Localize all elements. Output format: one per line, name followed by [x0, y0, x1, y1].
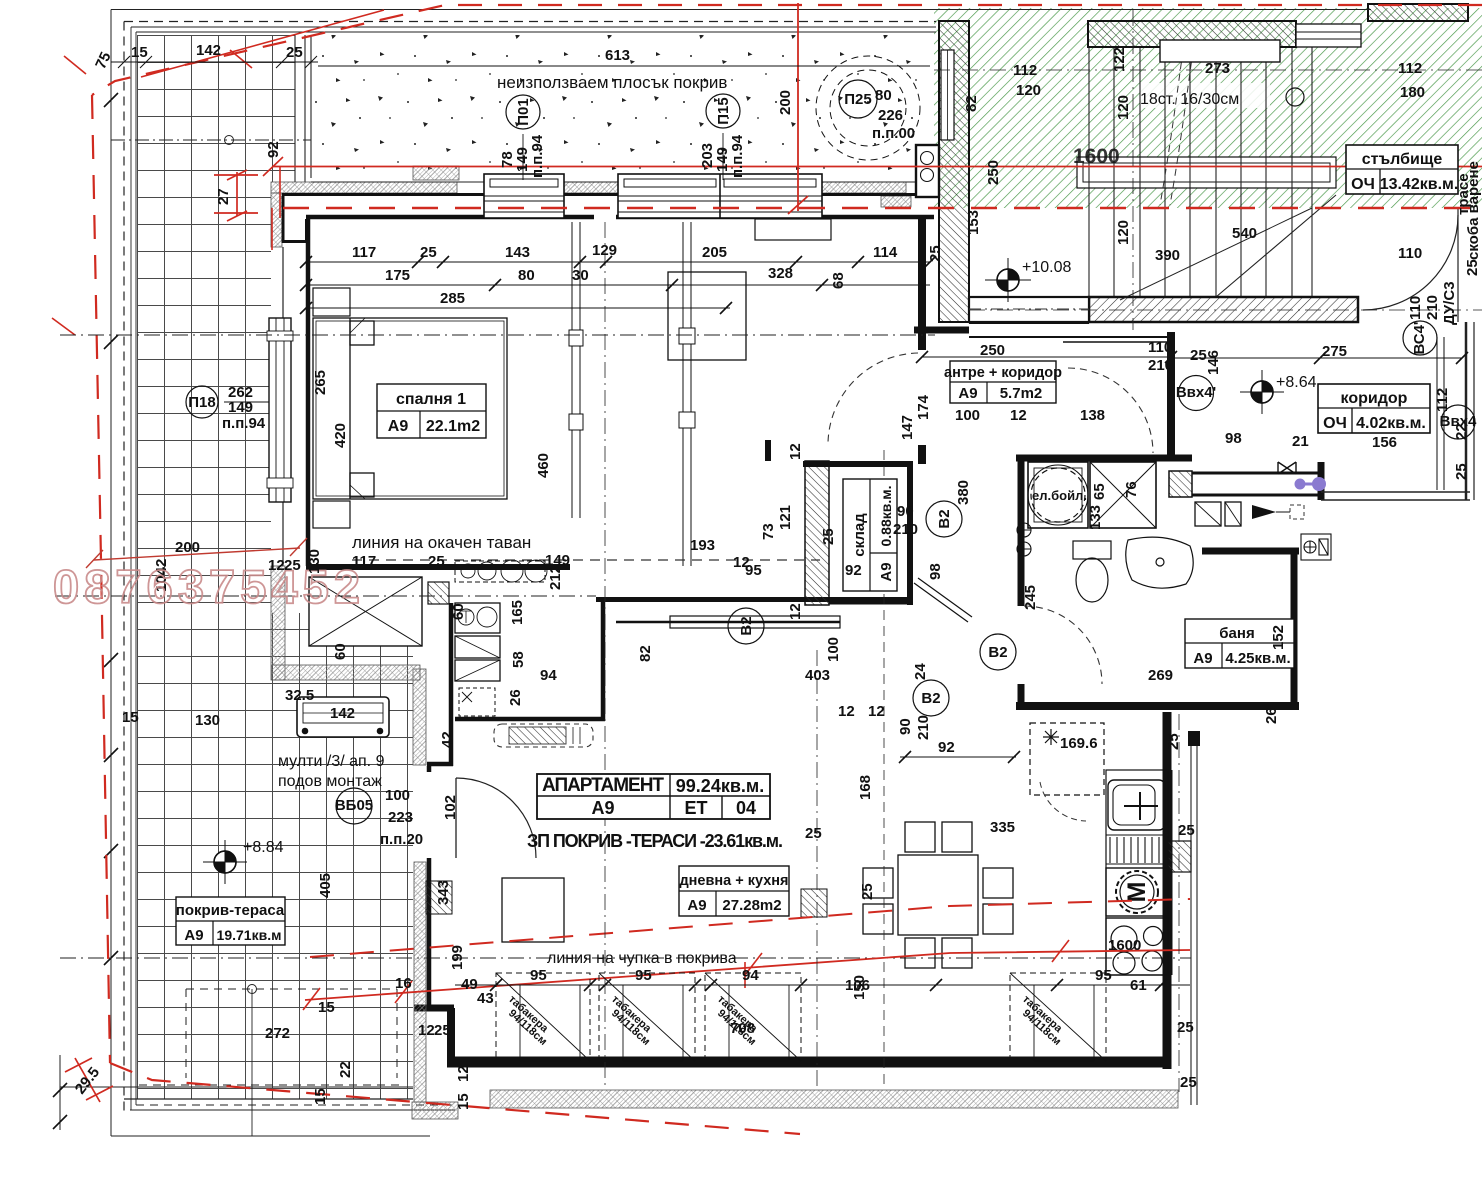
svg-text:В2: В2 [988, 644, 1007, 661]
svg-text:200: 200 [175, 539, 200, 556]
stairs inner guide line [1120, 208, 1312, 300]
svg-text:460: 460 [535, 453, 552, 478]
svg-text:200: 200 [777, 90, 794, 115]
purple key symbol [1296, 479, 1325, 490]
svg-text:210: 210 [893, 521, 918, 538]
svg-text:неизползваем плосък покрив: неизползваем плосък покрив [497, 73, 727, 92]
bottom terrace edge lines [60, 1055, 455, 1136]
svg-text:склад: склад [851, 513, 868, 557]
svg-text:В2: В2 [921, 690, 940, 707]
svg-text:272: 272 [265, 1025, 290, 1042]
svg-text:99.24кв.м.: 99.24кв.м. [676, 776, 764, 796]
table dnevna [679, 866, 789, 916]
svg-text:120: 120 [1115, 95, 1132, 120]
svg-text:линия на чупка в покрива: линия на чупка в покрива [547, 950, 737, 967]
svg-text:92: 92 [938, 739, 955, 756]
axis vertical x=252 [251, 989, 253, 1136]
svg-text:90: 90 [897, 718, 914, 735]
svg-text:25: 25 [1180, 1074, 1197, 1091]
svg-text:174: 174 [915, 394, 932, 420]
level marker circle 10.08 [985, 258, 1031, 302]
svg-text:265: 265 [312, 370, 329, 395]
svg-text:92: 92 [265, 141, 282, 158]
svg-text:26: 26 [507, 689, 524, 706]
building right edge double line [1458, 208, 1474, 500]
axis dashed vertical x884 [883, 450, 885, 1090]
svg-text:65: 65 [1091, 483, 1108, 500]
washing machine kitchen [1106, 868, 1168, 916]
antre door swing dashed [1068, 368, 1153, 453]
svg-text:25: 25 [1178, 822, 1195, 839]
kitchen counter right [1106, 770, 1172, 975]
svg-text:60: 60 [332, 643, 349, 660]
svg-text:92: 92 [845, 562, 862, 579]
svg-text:60: 60 [450, 603, 467, 620]
VB05 circle [336, 788, 372, 824]
svg-text:линия на окачен таван: линия на окачен таван [352, 533, 531, 552]
west crosshatch wall strip lower [413, 669, 426, 765]
svg-text:П15: П15 [715, 97, 732, 124]
svg-text:12: 12 [1010, 407, 1027, 424]
svg-text:25: 25 [1464, 259, 1481, 276]
hatched block near kitchen nook [428, 582, 449, 604]
stair treads vertical lines [1089, 47, 1312, 297]
svg-text:43: 43 [477, 990, 494, 1007]
svg-text:68: 68 [830, 272, 847, 289]
valve symbol corridor [1278, 462, 1296, 474]
red dashed line y208 [283, 207, 1482, 209]
roof stipple band [311, 35, 930, 178]
svg-text:250: 250 [980, 342, 1005, 359]
staircase top wall hatched [1088, 21, 1296, 47]
terrace tile grid bottom-left [137, 613, 413, 1099]
wardrobe with X terrace [309, 577, 422, 646]
svg-text:73: 73 [760, 523, 777, 540]
bath inner wall horizontal [1202, 548, 1299, 555]
svg-text:32.5: 32.5 [285, 687, 314, 704]
svg-text:275: 275 [1322, 343, 1347, 360]
svg-text:210: 210 [1148, 357, 1173, 374]
staircase bottom wall hatched [1089, 297, 1358, 322]
table koridor [1318, 384, 1430, 433]
svg-text:250: 250 [985, 160, 1002, 185]
table sklad rotated [843, 479, 897, 591]
staircase green hatch area [934, 8, 1482, 208]
svg-text:540: 540 [1232, 225, 1257, 242]
bedroom NW corner step [283, 196, 308, 243]
window 2+3 living/roof [618, 174, 822, 218]
svg-text:27.28m2: 27.28m2 [722, 897, 781, 914]
svg-text:мулти /3/ ап. 9: мулти /3/ ап. 9 [278, 753, 385, 770]
table pokriv-terasa [176, 897, 285, 945]
svg-text:А9: А9 [687, 897, 706, 914]
svg-text:скоба варене: скоба варене [1465, 161, 1482, 260]
sofa living [422, 878, 564, 984]
kitchen east wall [1163, 712, 1172, 1069]
svg-text:ОЧ: ОЧ [1323, 415, 1347, 432]
svg-text:А9: А9 [591, 798, 614, 818]
svg-text:130: 130 [195, 712, 220, 729]
svg-text:420: 420 [332, 423, 349, 448]
svg-text:1600: 1600 [1073, 145, 1120, 168]
svg-text:82: 82 [637, 645, 654, 662]
north wall inner thick line [306, 215, 934, 220]
svg-text:193: 193 [690, 537, 715, 554]
svg-text:13.42кв.м.: 13.42кв.м. [1380, 176, 1459, 193]
svg-text:+8.84: +8.84 [243, 839, 284, 856]
svg-text:25: 25 [286, 44, 303, 61]
door stairs-corridor arc [1363, 215, 1458, 310]
svg-text:п.п.00: п.п.00 [872, 125, 915, 142]
svg-text:152: 152 [1270, 625, 1287, 650]
svg-text:А9: А9 [388, 418, 409, 435]
svg-text:25: 25 [1453, 463, 1470, 480]
svg-text:ЗП ПОКРИВ -ТЕРАСИ -23.61кв.м.: ЗП ПОКРИВ -ТЕРАСИ -23.61кв.м. [527, 831, 783, 851]
terrace door arc [455, 778, 457, 858]
tabakera boxes [496, 973, 1106, 1061]
axis dash-dot vertical x605 [604, 222, 606, 1090]
svg-text:22: 22 [337, 1061, 354, 1078]
svg-text:П01: П01 [515, 98, 532, 125]
svg-text:п.п.94: п.п.94 [222, 415, 266, 432]
bedroom west wall [306, 219, 311, 566]
svg-text:4.02кв.м.: 4.02кв.м. [1356, 415, 1426, 432]
svg-text:22.1m2: 22.1m2 [426, 418, 480, 435]
bath shower box [1090, 462, 1156, 528]
table banya [1185, 619, 1294, 668]
north wall outer line [282, 193, 934, 196]
terrace inner boundary lines [295, 35, 311, 182]
top-right corner block [1368, 4, 1468, 21]
svg-text:146: 146 [1205, 350, 1222, 375]
svg-text:п.п.94: п.п.94 [729, 134, 746, 178]
table spalnia [377, 384, 486, 438]
svg-text:15: 15 [131, 44, 148, 61]
svg-text:133: 133 [1087, 505, 1104, 530]
red dim 27 [214, 170, 258, 221]
corridor east wall piece [1318, 462, 1325, 500]
svg-text:98: 98 [927, 563, 944, 580]
svg-text:143: 143 [505, 244, 530, 261]
svg-text:покрив-тераса: покрив-тераса [176, 902, 285, 919]
bottom dim line [455, 984, 1190, 986]
svg-text:5.7m2: 5.7m2 [1000, 385, 1043, 402]
svg-text:61: 61 [1130, 977, 1147, 994]
svg-text:142: 142 [196, 42, 221, 59]
svg-text:80: 80 [518, 267, 535, 284]
svg-text:49: 49 [461, 976, 478, 993]
axis dash-dot horizontal bottom [60, 957, 1191, 959]
svg-text:16: 16 [395, 975, 412, 992]
svg-text:коридор: коридор [1341, 390, 1408, 407]
axis dash-dot x1133 stairs [1132, 10, 1134, 330]
svg-text:117: 117 [352, 244, 376, 261]
svg-text:+10.08: +10.08 [1022, 259, 1071, 276]
svg-text:328: 328 [768, 265, 793, 282]
svg-text:98: 98 [1225, 430, 1242, 447]
bed bedroom [313, 318, 507, 499]
table stylbishte [1346, 145, 1458, 194]
axis dash-dot y70 stairs [934, 69, 1482, 71]
svg-text:12: 12 [787, 603, 804, 620]
level marker 8.84 [203, 840, 247, 884]
svg-text:А9: А9 [878, 562, 895, 581]
fridge dashed box kitchen [1030, 723, 1104, 795]
arrow into apartment [1252, 505, 1276, 519]
svg-text:дневна + кухня: дневна + кухня [679, 873, 788, 889]
svg-text:12: 12 [733, 554, 750, 571]
svg-text:ЕТ: ЕТ [684, 798, 707, 818]
svg-text:15: 15 [455, 1093, 472, 1110]
svg-text:ел.бойл.: ел.бойл. [1032, 488, 1087, 503]
kitchen nook counters (bedroom lower) [455, 560, 547, 716]
svg-text:380: 380 [955, 480, 972, 505]
svg-text:25: 25 [1165, 733, 1182, 750]
window 1 bedroom [484, 174, 564, 218]
svg-text:129: 129 [592, 242, 617, 259]
svg-text:76: 76 [1123, 481, 1140, 498]
svg-text:ВС4': ВС4' [1411, 321, 1428, 354]
corridor wall double with hatch pillar [1169, 471, 1192, 497]
kitchen island counter [616, 616, 840, 628]
red dim 29.5 bottom-left [65, 1058, 113, 1102]
main axis dash-dot horizontal y335 [60, 334, 935, 336]
svg-text:138: 138 [1080, 407, 1105, 424]
svg-text:245: 245 [1022, 585, 1039, 610]
svg-text:168: 168 [857, 775, 874, 800]
svg-text:120: 120 [1115, 220, 1132, 245]
svg-text:25: 25 [1177, 1019, 1194, 1036]
svg-text:156: 156 [1372, 434, 1397, 451]
svg-text:95: 95 [530, 967, 547, 984]
dish rack lines [1106, 835, 1168, 864]
svg-text:В2: В2 [738, 616, 755, 635]
svg-text:147: 147 [899, 415, 916, 440]
svg-text:25: 25 [428, 553, 445, 570]
bath washer box [1028, 462, 1088, 528]
svg-text:121: 121 [777, 505, 794, 530]
svg-text:210: 210 [1424, 295, 1441, 320]
svg-text:405: 405 [317, 873, 334, 898]
red vertical line x798 [788, 3, 808, 214]
P circles top [186, 56, 920, 418]
living room shelf top [755, 219, 831, 240]
toilet [1073, 541, 1111, 602]
arrow bath small [630, 804, 652, 816]
frame lines top-left [111, 10, 1371, 1137]
dim chain row1 bedroom top [306, 262, 930, 308]
bath west wall [1018, 455, 1025, 606]
svg-text:205: 205 [702, 244, 727, 261]
svg-text:100: 100 [385, 787, 410, 804]
svg-text:В2: В2 [936, 509, 953, 528]
svg-text:285: 285 [440, 290, 465, 307]
bedroom east wall [918, 218, 926, 350]
svg-text:122: 122 [1111, 47, 1128, 72]
shoe cabinet corridor [1195, 502, 1241, 526]
svg-text:А9: А9 [1193, 650, 1212, 667]
svg-text:Ввх4: Ввх4 [1440, 413, 1477, 430]
crosshatch band north wall [271, 166, 911, 247]
svg-text:180: 180 [1400, 84, 1425, 101]
svg-text:04: 04 [736, 798, 756, 818]
svg-text:58: 58 [510, 651, 527, 668]
axis dash-dot with circle top-left [111, 139, 311, 141]
svg-text:15: 15 [318, 999, 335, 1016]
svg-text:25: 25 [820, 528, 837, 545]
storage hatched wall [805, 461, 829, 605]
white under stair text [1140, 83, 1270, 108]
svg-text:149: 149 [545, 552, 570, 569]
svg-text:12: 12 [268, 557, 285, 574]
svg-text:25: 25 [284, 557, 301, 574]
stair bottom parapet white [969, 297, 1089, 322]
svg-text:Ввх4': Ввх4' [1176, 384, 1216, 401]
svg-text:15: 15 [122, 709, 139, 726]
svg-text:269: 269 [1148, 667, 1173, 684]
door circles right [1179, 376, 1214, 411]
svg-text:390: 390 [1155, 247, 1180, 264]
svg-text:П18: П18 [188, 394, 215, 411]
svg-text:п.п.20: п.п.20 [380, 831, 423, 848]
svg-text:210: 210 [915, 715, 932, 740]
bath east wall [1291, 548, 1298, 710]
svg-text:12: 12 [868, 703, 885, 720]
svg-text:25: 25 [859, 883, 876, 900]
svg-text:199: 199 [449, 945, 466, 970]
svg-text:112: 112 [1013, 62, 1037, 79]
antre east wall [1167, 332, 1175, 455]
B2 circles [728, 501, 1016, 716]
svg-text:165: 165 [509, 600, 526, 625]
bedroom nightstands [313, 288, 350, 528]
svg-text:80: 80 [875, 87, 892, 104]
svg-text:175: 175 [385, 267, 410, 284]
dining table with chairs [863, 822, 1013, 968]
svg-text:343: 343 [435, 880, 452, 905]
svg-text:ДУ/С3: ДУ/С3 [1441, 281, 1458, 325]
svg-text:M: M [1123, 882, 1151, 903]
svg-text:117: 117 [352, 553, 376, 570]
svg-text:273: 273 [1205, 60, 1230, 77]
svg-text:25: 25 [434, 1022, 451, 1039]
dim line top roof y66 [318, 65, 930, 67]
axis dash-dot y310 stair wall [969, 309, 1482, 311]
svg-text:112: 112 [1398, 60, 1422, 77]
svg-text:ОЧ: ОЧ [1351, 176, 1375, 193]
svg-text:223: 223 [388, 809, 413, 826]
svg-text:П25: П25 [844, 91, 871, 108]
svg-text:19.71кв.м: 19.71кв.м [217, 927, 282, 943]
svg-text:94: 94 [540, 667, 557, 684]
red tick at level line start [263, 157, 283, 250]
svg-text:подов монтаж: подов монтаж [278, 773, 382, 790]
svg-text:25: 25 [805, 825, 822, 842]
staircase left wall hatched [939, 21, 969, 322]
svg-text:100: 100 [825, 637, 842, 662]
bath/kitchen separating wall [1016, 702, 1299, 710]
svg-text:18ст. 16/30см: 18ст. 16/30см [1140, 91, 1239, 108]
living room cupboard [668, 272, 746, 360]
wall bedroom to stairwall [914, 327, 969, 334]
svg-text:30: 30 [572, 267, 589, 284]
stair cut diagonal [1216, 195, 1336, 297]
svg-text:21: 21 [1292, 433, 1309, 450]
table apartament [537, 774, 770, 819]
NE corner niche box [916, 145, 939, 197]
corridor floor lines right [1321, 492, 1470, 500]
living room south wall [447, 1057, 1171, 1068]
svg-text:149: 149 [228, 399, 253, 416]
svg-text:153: 153 [965, 210, 982, 235]
svg-text:стълбище: стълбище [1362, 151, 1443, 168]
svg-text:110: 110 [1407, 296, 1424, 320]
svg-text:226: 226 [878, 107, 903, 124]
antre north small step [969, 323, 1167, 337]
svg-text:95: 95 [1095, 967, 1112, 984]
svg-text:335: 335 [990, 819, 1015, 836]
svg-text:15: 15 [312, 1088, 329, 1105]
stair landing white box [1077, 157, 1336, 188]
living west wall with door [414, 598, 913, 1066]
svg-text:613: 613 [605, 47, 630, 64]
svg-text:26: 26 [1263, 707, 1280, 724]
svg-text:+8.64: +8.64 [1276, 374, 1317, 391]
table antre [944, 361, 1062, 403]
svg-text:110: 110 [1398, 245, 1422, 262]
svg-text:82: 82 [963, 95, 980, 112]
svg-text:110: 110 [1148, 339, 1172, 356]
svg-text:12: 12 [787, 443, 804, 460]
svg-text:42: 42 [439, 731, 456, 748]
svg-text:0.88кв.м.: 0.88кв.м. [878, 486, 894, 547]
svg-text:12: 12 [455, 1065, 472, 1082]
svg-text:120: 120 [1016, 82, 1041, 99]
dashed inner rect bottom terrace [186, 989, 397, 1078]
svg-text:100: 100 [955, 407, 980, 424]
svg-text:АПАРТАМЕНТ: АПАРТАМЕНТ [542, 775, 664, 796]
red roof break dashed line [310, 899, 1190, 957]
svg-text:25: 25 [927, 245, 944, 262]
svg-text:антре + коридор: антре + коридор [944, 365, 1062, 381]
dim line top terrace y62 [111, 56, 318, 68]
svg-text:169.6: 169.6 [1060, 735, 1098, 752]
south facade crosshatch band [490, 1090, 1178, 1108]
svg-text:142: 142 [330, 705, 355, 722]
svg-text:25: 25 [420, 244, 437, 261]
svg-text:150: 150 [851, 975, 868, 1000]
svg-text:спалня 1: спалня 1 [396, 391, 466, 408]
svg-text:12: 12 [418, 1022, 435, 1039]
svg-text:130: 130 [306, 549, 323, 574]
multisplit AC unit [297, 697, 389, 737]
red survey diagonal top-left [52, 10, 384, 335]
svg-text:п.п.94: п.п.94 [529, 134, 546, 178]
bath sink oval [1126, 537, 1193, 588]
svg-text:95: 95 [635, 967, 652, 984]
svg-text:ВБ05: ВБ05 [335, 797, 373, 814]
svg-text:403: 403 [805, 667, 830, 684]
svg-text:1600: 1600 [1108, 937, 1141, 954]
svg-text:102: 102 [442, 795, 459, 820]
stair guide dashed line [1160, 50, 1193, 205]
storage walls [768, 440, 913, 605]
kitchen nook east hatched pillar [1168, 841, 1191, 872]
level marker 8.64 [1240, 370, 1284, 414]
antre door leaf [1063, 341, 1171, 343]
svg-text:94: 94 [742, 967, 759, 984]
red level line solid y166 [272, 166, 1482, 168]
